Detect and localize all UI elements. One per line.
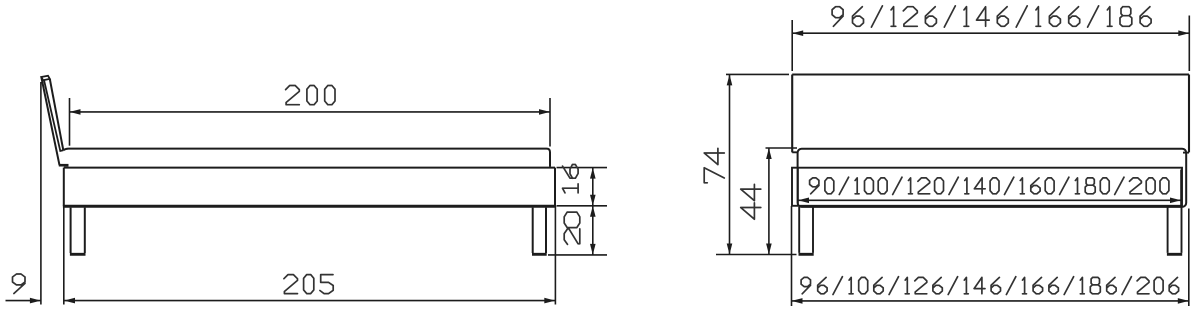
left leg bottom xyxy=(70,253,86,256)
arrow top left xyxy=(792,30,803,36)
left leg xyxy=(71,208,85,253)
mattress xyxy=(63,149,550,167)
headboard front left edge xyxy=(791,75,793,153)
front left leg bottom xyxy=(799,253,814,256)
headboard front top xyxy=(792,73,1189,75)
headboard bottom edge xyxy=(59,164,69,167)
front right leg xyxy=(1168,207,1182,253)
arrow 9 xyxy=(30,298,41,304)
headboard left lower edge xyxy=(792,151,797,153)
extension line headboard height xyxy=(726,73,789,75)
arrow widths left xyxy=(798,198,809,204)
extension line floor right xyxy=(548,254,607,256)
label 205 xyxy=(284,275,333,294)
headboard front right edge xyxy=(1188,75,1190,153)
extension line mattress right xyxy=(1180,170,1182,206)
front right leg bottom xyxy=(1167,253,1182,256)
extension line rail right xyxy=(554,206,556,304)
dimension line 205 xyxy=(64,300,555,302)
label widths xyxy=(810,177,1169,194)
headboard top face xyxy=(41,76,50,81)
extension line rail left xyxy=(63,206,65,304)
bed frame rail front xyxy=(798,149,1187,207)
label 9 xyxy=(13,274,26,294)
label 44 xyxy=(741,184,761,219)
label headboard widths xyxy=(832,6,1151,27)
arrow 74 bottom xyxy=(727,244,733,255)
arrow 16 bottom xyxy=(590,195,596,206)
arrow bottom right xyxy=(1178,298,1189,304)
arrow 74 top xyxy=(727,74,733,85)
side rail left edge xyxy=(63,168,65,207)
dimension line headboard widths xyxy=(792,32,1189,34)
arrow 44 bottom xyxy=(766,244,772,255)
extension line bottom right xyxy=(1188,209,1190,307)
label 16 xyxy=(563,165,579,193)
extension line 200 left xyxy=(69,98,71,146)
right leg xyxy=(533,208,546,253)
extension line top left xyxy=(791,20,793,71)
arrow 200 left xyxy=(70,109,81,115)
arrow widths right xyxy=(1170,198,1181,204)
extension line bottom left xyxy=(791,206,793,306)
arrow 205 right xyxy=(544,298,555,304)
arrow top right xyxy=(1178,30,1189,36)
extension line 200 right xyxy=(549,98,551,147)
arrow 20 bottom xyxy=(590,244,596,255)
extension line rail top right xyxy=(557,167,608,169)
arrow 20 top xyxy=(590,206,596,217)
extension line rail height xyxy=(766,147,798,149)
dimension line 16-20 xyxy=(592,168,594,255)
arrow 205 left xyxy=(64,298,75,304)
extension line headboard top xyxy=(40,82,42,305)
side rail right edge xyxy=(554,168,556,207)
side rail top xyxy=(64,167,555,169)
dimension line frame widths xyxy=(792,300,1189,302)
extension line mattress left xyxy=(797,169,799,206)
label 74 xyxy=(704,148,724,183)
right leg bottom xyxy=(532,253,547,256)
extension line top right xyxy=(1188,16,1190,72)
dimension line 44 xyxy=(768,148,770,255)
dimension line 9 tail xyxy=(6,300,41,302)
extension line rail bottom right xyxy=(557,205,608,207)
dimension line widths xyxy=(798,199,1181,201)
label 200 xyxy=(286,86,335,105)
dimension line 74 xyxy=(729,74,731,254)
arrow 200 right xyxy=(539,109,550,115)
arrow bottom left xyxy=(792,298,803,304)
label frame widths xyxy=(801,277,1179,295)
arrow 16 top xyxy=(590,168,596,179)
arrow 44 top xyxy=(766,148,772,159)
label 20 xyxy=(564,212,580,244)
headboard front edge xyxy=(50,79,64,150)
headboard right lower edge xyxy=(1183,152,1189,154)
size label box xyxy=(792,168,1182,206)
headboard inner edge xyxy=(44,80,63,151)
dimension line 200 xyxy=(70,111,551,113)
extension line floor left xyxy=(716,254,797,256)
headboard back edge xyxy=(41,77,59,165)
side rail bottom edge xyxy=(63,205,556,208)
front left leg xyxy=(799,207,813,253)
